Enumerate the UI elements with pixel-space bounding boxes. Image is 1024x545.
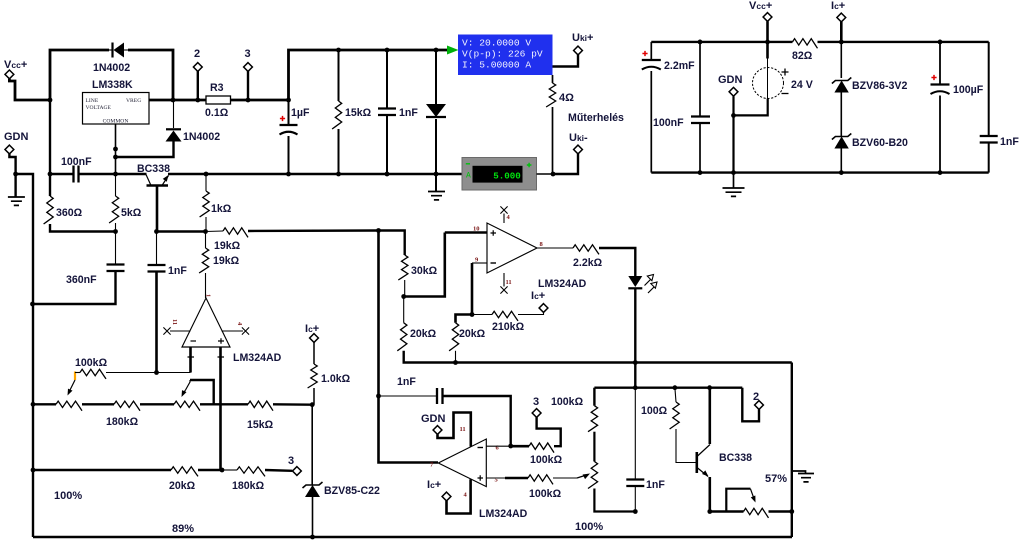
svg-text:100%: 100% [575, 521, 603, 533]
svg-text:1N4002: 1N4002 [183, 131, 220, 143]
svg-text:1µF: 1µF [291, 107, 310, 119]
svg-text:100nF: 100nF [653, 117, 684, 129]
svg-text:V: 20.0000 V: V: 20.0000 V [462, 37, 531, 48]
svg-text:GDN: GDN [4, 131, 29, 143]
svg-text:Vcc+: Vcc+ [4, 59, 27, 71]
svg-text:V(p-p): 226 pV: V(p-p): 226 pV [462, 48, 543, 59]
svg-text:30kΩ: 30kΩ [411, 265, 438, 277]
svg-text:1nF: 1nF [168, 265, 187, 277]
svg-text:1N4002: 1N4002 [93, 62, 130, 74]
svg-text:COMMON: COMMON [103, 119, 129, 125]
svg-text:100kΩ: 100kΩ [551, 396, 584, 408]
svg-text:LM324AD: LM324AD [233, 352, 282, 364]
svg-text:20kΩ: 20kΩ [459, 328, 486, 340]
svg-text:210kΩ: 210kΩ [492, 321, 525, 333]
svg-text:Vcc+: Vcc+ [749, 0, 772, 12]
svg-text:5kΩ: 5kΩ [121, 207, 142, 219]
svg-text:2.2mF: 2.2mF [664, 60, 695, 72]
svg-text:A: A [466, 172, 471, 181]
svg-text:LM324AD: LM324AD [538, 278, 587, 290]
svg-text:11: 11 [506, 279, 512, 286]
svg-text:19kΩ: 19kΩ [213, 255, 240, 267]
svg-text:1nF: 1nF [399, 107, 418, 119]
svg-text:1.0kΩ: 1.0kΩ [321, 373, 351, 385]
svg-text:LM324AD: LM324AD [479, 508, 528, 520]
svg-text:360Ω: 360Ω [56, 207, 83, 219]
svg-text:0.1Ω: 0.1Ω [205, 107, 229, 119]
svg-text:BZV60-B20: BZV60-B20 [852, 137, 908, 149]
svg-text:11: 11 [460, 426, 466, 433]
svg-text:I: 5.00000 A: I: 5.00000 A [462, 59, 531, 70]
svg-text:1nF: 1nF [646, 479, 665, 491]
svg-text:BZV86-3V2: BZV86-3V2 [852, 80, 907, 92]
svg-text:3: 3 [533, 396, 539, 408]
svg-text:15kΩ: 15kΩ [345, 107, 372, 119]
svg-text:100Ω: 100Ω [641, 405, 668, 417]
svg-text:4Ω: 4Ω [559, 92, 574, 104]
svg-text:180kΩ: 180kΩ [232, 480, 265, 492]
svg-text:20kΩ: 20kΩ [410, 328, 437, 340]
svg-text:Ic+: Ic+ [531, 290, 545, 302]
svg-text:24 V: 24 V [791, 79, 813, 91]
svg-text:Uki+: Uki+ [572, 32, 593, 44]
svg-text:100kΩ: 100kΩ [75, 357, 108, 369]
svg-text:Uki-: Uki- [569, 132, 588, 144]
svg-text:19kΩ: 19kΩ [214, 240, 241, 252]
svg-text:100%: 100% [54, 490, 82, 502]
svg-text:LM338K: LM338K [92, 79, 133, 91]
svg-text:82Ω: 82Ω [792, 50, 813, 62]
svg-text:1nF: 1nF [397, 376, 416, 388]
svg-text:180kΩ: 180kΩ [106, 416, 139, 428]
svg-text:BZV85-C22: BZV85-C22 [324, 485, 380, 497]
svg-text:Ic+: Ic+ [831, 0, 845, 12]
svg-text:Ic+: Ic+ [427, 479, 441, 491]
svg-text:1nF: 1nF [1000, 136, 1019, 148]
svg-text:20kΩ: 20kΩ [169, 480, 196, 492]
svg-text:VREG: VREG [126, 98, 141, 104]
svg-text:1kΩ: 1kΩ [211, 203, 232, 215]
svg-text:2.2kΩ: 2.2kΩ [573, 257, 603, 269]
svg-text:2: 2 [194, 48, 200, 60]
svg-text:3: 3 [245, 48, 251, 60]
svg-text:100kΩ: 100kΩ [529, 488, 562, 500]
svg-text:Műterhelés: Műterhelés [568, 112, 624, 124]
svg-text:GDN: GDN [718, 74, 743, 86]
svg-text:5.000: 5.000 [493, 171, 521, 182]
svg-text:BC338: BC338 [719, 452, 752, 464]
svg-text:Ic+: Ic+ [305, 323, 319, 335]
svg-text:15kΩ: 15kΩ [247, 419, 274, 431]
svg-text:57%: 57% [765, 473, 787, 485]
svg-text:R3: R3 [210, 82, 224, 94]
svg-text:100nF: 100nF [61, 156, 92, 168]
svg-text:100kΩ: 100kΩ [530, 454, 563, 466]
svg-text:GDN: GDN [421, 413, 446, 425]
svg-text:11: 11 [171, 319, 178, 325]
svg-text:100µF: 100µF [953, 84, 984, 96]
svg-text:LINE: LINE [86, 98, 99, 104]
svg-text:1: 1 [205, 294, 212, 297]
svg-text:VOLTAGE: VOLTAGE [86, 105, 112, 111]
svg-text:3: 3 [288, 455, 294, 467]
svg-text:89%: 89% [172, 523, 194, 535]
svg-text:360nF: 360nF [66, 274, 97, 286]
